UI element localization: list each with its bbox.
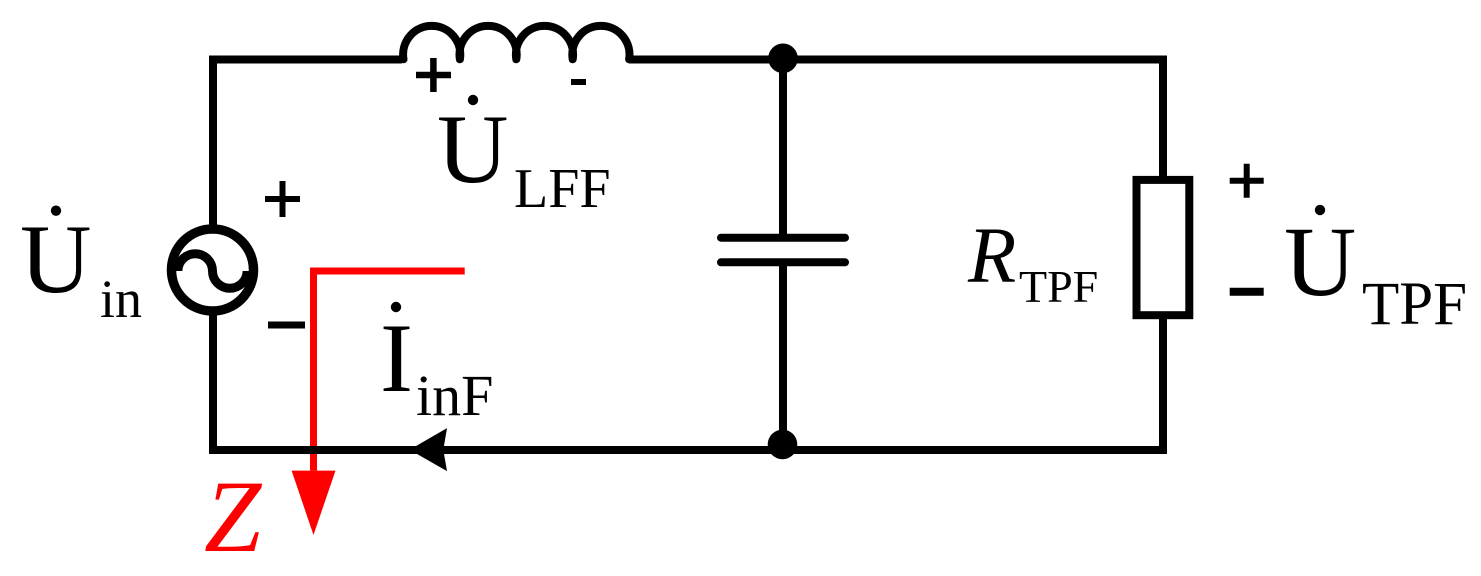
svg-text:I: I — [380, 304, 413, 413]
svg-text:inF: inF — [416, 363, 493, 428]
svg-text:LFF: LFF — [514, 158, 611, 220]
svg-text:U: U — [1284, 206, 1356, 317]
svg-text:Z: Z — [204, 460, 263, 574]
svg-text:TPF: TPF — [1362, 271, 1467, 338]
svg-text:TPF: TPF — [1019, 261, 1098, 312]
svg-text:R: R — [967, 213, 1016, 300]
svg-text:in: in — [100, 269, 142, 329]
svg-text:U: U — [20, 205, 92, 314]
svg-text:U: U — [437, 95, 509, 204]
